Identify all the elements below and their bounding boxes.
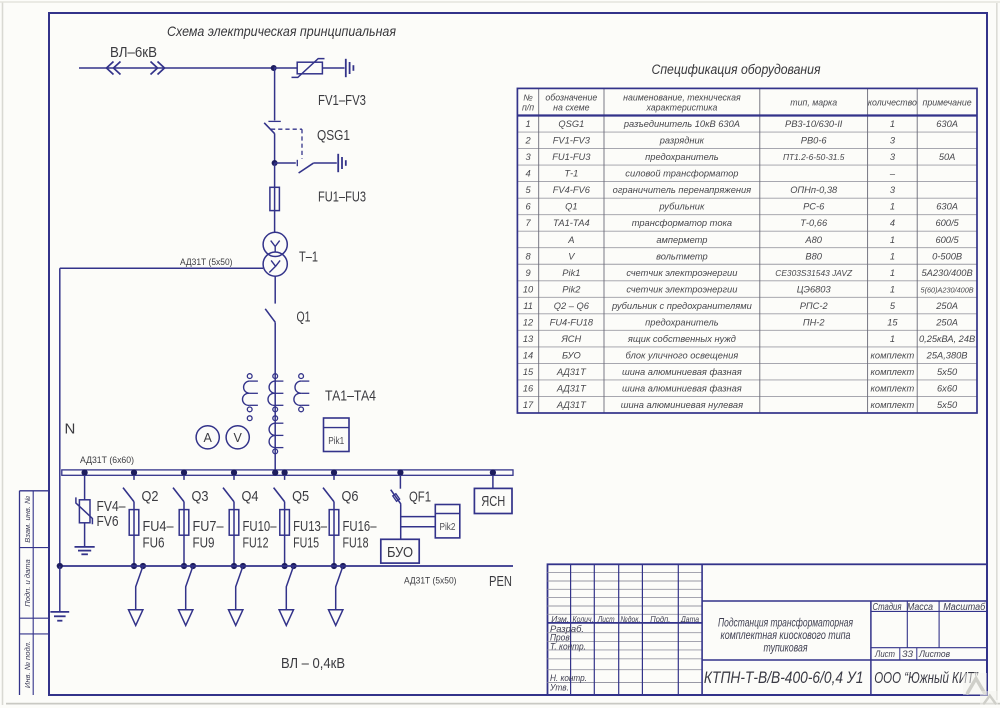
svg-text:ТА1-ТА4: ТА1-ТА4: [553, 218, 590, 228]
svg-text:Спецификация оборудования: Спецификация оборудования: [652, 62, 821, 77]
svg-text:1: 1: [890, 235, 895, 245]
svg-text:А: А: [204, 431, 213, 445]
ground for FV4-FV6: [75, 547, 95, 554]
svg-text:комплект: комплект: [871, 350, 915, 360]
svg-text:Т. контр.: Т. контр.: [550, 641, 586, 651]
svg-text:АД31Т: АД31Т: [556, 384, 587, 394]
auxiliary box YaSN: [474, 488, 512, 513]
svg-text:1: 1: [890, 119, 895, 129]
svg-text:В80: В80: [805, 251, 822, 261]
switch Q2: [123, 488, 134, 502]
svg-text:13: 13: [523, 334, 534, 344]
svg-text:Инв. № подл.: Инв. № подл.: [23, 641, 32, 688]
node: Q3 on PEN bus: [181, 563, 187, 569]
svg-text:FU1–FU3: FU1–FU3: [318, 189, 366, 206]
svg-text:FU12: FU12: [243, 535, 269, 552]
wire down to QSG1: [274, 68, 276, 120]
wire QF1 down: [400, 504, 402, 539]
svg-text:ООО “Южный КИТ”: ООО “Южный КИТ”: [874, 670, 978, 687]
spec table grid: [517, 88, 977, 413]
svg-text:QSG1: QSG1: [558, 119, 584, 129]
energy meter Pik2: [435, 505, 460, 538]
svg-text:Pik1: Pik1: [562, 268, 580, 278]
svg-text:Н. контр.: Н. контр.: [550, 673, 587, 683]
surge arrester FV1-FV3: [292, 59, 325, 78]
svg-text:FU7–: FU7–: [193, 518, 225, 535]
node: bus junction Q6: [331, 470, 337, 476]
svg-text:ЯСН: ЯСН: [481, 493, 505, 510]
svg-text:Схема электрическая принципиал: Схема электрическая принципиальная: [167, 24, 397, 39]
incoming line chevron arrows: [107, 62, 165, 75]
svg-text:количество: количество: [868, 98, 917, 108]
circuit breaker QF1: [391, 490, 401, 504]
title block project name: [718, 618, 853, 655]
svg-text:РС-6: РС-6: [803, 202, 825, 212]
svg-text:2: 2: [524, 136, 531, 146]
svg-text:FU18: FU18: [343, 535, 369, 552]
svg-text:Q6: Q6: [342, 488, 359, 505]
node: bus junction Q3: [181, 470, 187, 476]
energy meter Pik1: [324, 418, 350, 452]
svg-text:ТА1–ТА4: ТА1–ТА4: [325, 388, 376, 405]
wire stub bus to QF1: [399, 475, 401, 489]
svg-text:1: 1: [890, 334, 895, 344]
wire Q6 to fuse: [333, 502, 335, 566]
current transformer winding TA1: [242, 374, 257, 412]
svg-text:FU4–: FU4–: [143, 518, 175, 535]
svg-text:V: V: [234, 431, 243, 445]
svg-text:N: N: [65, 421, 75, 438]
svg-text:5х50: 5х50: [937, 400, 958, 410]
svg-text:предохранитель: предохранитель: [645, 152, 719, 162]
wire T-1 to Q1: [274, 276, 276, 303]
svg-text:ЯСН: ЯСН: [560, 334, 581, 344]
ground (right-facing) for FV1-FV3: [346, 59, 354, 77]
svg-text:ПН-2: ПН-2: [803, 317, 826, 327]
svg-text:Утв.: Утв.: [549, 683, 569, 693]
outgoing line arrow Q3: [179, 610, 193, 626]
watermark (decorative): [963, 673, 987, 695]
node: junction of line and arrester tap: [271, 65, 277, 71]
wire QF1 to Pik2 (lower): [401, 526, 436, 528]
wire 6kV overhead line: [79, 67, 274, 69]
svg-text:Q1: Q1: [297, 309, 311, 326]
svg-text:4: 4: [525, 169, 530, 179]
svg-text:FU6: FU6: [143, 535, 165, 552]
svg-text:FU10–: FU10–: [243, 518, 277, 535]
svg-text:FU13–: FU13–: [293, 518, 327, 535]
svg-text:Подп.: Подп.: [650, 614, 670, 624]
wire to earthing switch: [275, 162, 296, 164]
svg-text:600/5: 600/5: [935, 218, 959, 228]
svg-text:FV4-FV6: FV4-FV6: [553, 185, 591, 195]
wire bus to FV4-FV6: [84, 475, 86, 500]
svg-text:тип, марка: тип, марка: [790, 98, 837, 108]
svg-text:АД31Т: АД31Т: [556, 367, 587, 377]
svg-text:РПС-2: РПС-2: [800, 301, 829, 311]
fuse FU7–FU9: [179, 510, 189, 536]
main 0.4kV busbar: [62, 470, 513, 475]
svg-text:АД31Т (5х50): АД31Т (5х50): [180, 257, 233, 268]
svg-text:FU9: FU9: [193, 535, 215, 552]
svg-text:33: 33: [902, 649, 914, 660]
svg-text:тупиковая: тупиковая: [764, 643, 808, 655]
node: bus junction Q4: [231, 470, 237, 476]
svg-text:FU15: FU15: [293, 535, 319, 552]
fuse FU4–FU6: [129, 510, 139, 536]
svg-text:Q5: Q5: [292, 488, 309, 505]
svg-text:ящик собственных нужд: ящик собственных нужд: [627, 334, 736, 344]
node: QSG1 / earthing switch junction: [272, 160, 278, 166]
TA1 terminal circle: [247, 416, 252, 421]
svg-text:предохранитель: предохранитель: [645, 317, 719, 327]
svg-text:630А: 630А: [936, 119, 958, 129]
wire Q2 to fuse: [133, 502, 135, 566]
svg-text:КТПН-Т-В/В-400-6/0,4 У1: КТПН-Т-В/В-400-6/0,4 У1: [704, 668, 864, 687]
left strip label (rotated): [23, 641, 32, 688]
feeder Q3: wire stub from bus: [183, 475, 185, 480]
svg-text:Лист: Лист: [874, 649, 895, 660]
svg-text:QF1: QF1: [409, 489, 431, 506]
svg-text:рубильник с предохранителями: рубильник с предохранителями: [611, 301, 752, 311]
wire Q3 to fuse: [183, 502, 185, 566]
switch Q1: [265, 309, 275, 322]
svg-text:250А: 250А: [935, 317, 958, 327]
svg-text:FV1-FV3: FV1-FV3: [553, 136, 591, 146]
svg-text:Дата: Дата: [680, 614, 699, 624]
switch Q4: [223, 488, 234, 502]
svg-text:1: 1: [890, 268, 895, 278]
svg-text:ОПНп-0,38: ОПНп-0,38: [790, 185, 838, 195]
svg-text:14: 14: [523, 350, 533, 360]
switch Q3: [173, 488, 184, 502]
svg-text:СЕ303S31543 JAVZ: СЕ303S31543 JAVZ: [775, 268, 853, 278]
svg-text:примечание: примечание: [923, 98, 972, 108]
svg-text:характеристика: характеристика: [645, 103, 717, 113]
node: outgoing tap Q4: [240, 563, 246, 569]
svg-text:15: 15: [887, 317, 898, 327]
svg-text:Q4: Q4: [242, 488, 259, 505]
svg-text:3: 3: [890, 185, 896, 195]
svg-text:БУО: БУО: [562, 350, 581, 360]
svg-text:PEN: PEN: [489, 573, 512, 590]
svg-text:Pik2: Pik2: [440, 521, 456, 533]
svg-text:V: V: [568, 251, 575, 261]
svg-text:разрядник: разрядник: [659, 136, 705, 146]
node: bus junction Q2: [131, 470, 137, 476]
svg-text:5(60)А230/400В: 5(60)А230/400В: [921, 285, 974, 294]
wire QSG1 to node: [274, 134, 276, 163]
svg-text:блок уличного освещения: блок уличного освещения: [626, 350, 739, 360]
outgoing line arrow Q4: [229, 610, 243, 626]
spec table header: [522, 93, 972, 113]
svg-text:Q2 – Q6: Q2 – Q6: [554, 301, 590, 311]
svg-text:А80: А80: [804, 235, 822, 245]
svg-text:ВЛ–6кВ: ВЛ–6кВ: [110, 44, 157, 61]
svg-text:0-500В: 0-500В: [932, 251, 962, 261]
outgoing line arrow Q2: [129, 610, 143, 626]
wire outgoing line Q3: [186, 566, 193, 610]
svg-text:Изм.: Изм.: [551, 614, 569, 624]
svg-text:Взам. инв. №: Взам. инв. №: [23, 496, 32, 543]
node: outgoing tap Q3: [190, 563, 196, 569]
outgoing line arrow Q5: [279, 610, 293, 626]
svg-text:Колич.: Колич.: [573, 614, 594, 624]
wire to arrester FV1-FV3: [274, 67, 297, 69]
svg-text:Листов: Листов: [918, 649, 950, 660]
earthing switch contact of QSG1: [297, 160, 313, 173]
svg-text:счетчик электроэнергии: счетчик электроэнергии: [626, 268, 737, 278]
svg-text:Q3: Q3: [192, 488, 209, 505]
svg-text:5: 5: [890, 301, 896, 311]
feeder Q5: wire stub from bus: [284, 475, 286, 480]
wire FV4-FV6 to ground: [84, 523, 86, 547]
svg-text:комплект: комплект: [871, 400, 915, 410]
svg-text:Т-1: Т-1: [564, 169, 578, 179]
svg-text:АД31Т (5х50): АД31Т (5х50): [404, 575, 457, 586]
wire outgoing line Q6: [336, 566, 343, 610]
node: Q4 on PEN bus: [231, 563, 237, 569]
wire outgoing line Q2: [136, 566, 143, 610]
feeder Q4: wire stub from bus: [233, 475, 235, 480]
svg-text:ВЛ – 0,4кВ: ВЛ – 0,4кВ: [281, 655, 345, 672]
voltmeter V: [226, 426, 249, 449]
svg-text:3: 3: [890, 152, 896, 162]
svg-text:16: 16: [523, 384, 534, 394]
wire Q5 to fuse: [284, 502, 286, 566]
svg-text:15: 15: [523, 367, 534, 377]
svg-text:комплектная киоскового типа: комплектная киоскового типа: [721, 630, 851, 642]
wire Q4 to fuse: [233, 502, 235, 566]
svg-text:Q2: Q2: [142, 488, 159, 505]
disconnector QSG1: [264, 121, 281, 133]
svg-text:4: 4: [890, 218, 895, 228]
node: Q6 on PEN bus: [331, 563, 337, 569]
svg-text:–: –: [889, 169, 896, 179]
switch Q5: [274, 488, 285, 502]
svg-text:вольтметр: вольтметр: [656, 251, 708, 261]
svg-text:наименование, техническая: наименование, техническая: [623, 93, 741, 103]
svg-text:БУО: БУО: [387, 544, 413, 561]
svg-text:1: 1: [890, 284, 895, 294]
wire outgoing line Q4: [236, 566, 243, 610]
svg-text:12: 12: [523, 317, 534, 327]
title block stage/mass/scale: [873, 601, 986, 660]
fuse FU16–FU18: [329, 510, 339, 536]
svg-text:разъединитель 10кВ 630А: разъединитель 10кВ 630А: [623, 119, 740, 129]
svg-text:3: 3: [890, 136, 896, 146]
fuse FU13–FU15: [280, 510, 290, 536]
node: outgoing tap Q2: [140, 563, 146, 569]
svg-text:5: 5: [525, 185, 531, 195]
node: bus junction FV4 tap: [82, 470, 88, 476]
wire outgoing line Q5: [286, 566, 293, 610]
svg-text:ограничитель перенапряжения: ограничитель перенапряжения: [613, 185, 751, 195]
svg-text:счетчик электроэнергии: счетчик электроэнергии: [626, 284, 737, 294]
svg-text:5х50: 5х50: [937, 367, 958, 377]
title block small labels: [549, 614, 699, 693]
svg-text:1: 1: [890, 202, 895, 212]
svg-text:17: 17: [523, 400, 534, 410]
svg-text:8: 8: [525, 251, 531, 261]
svg-text:АД31Т: АД31Т: [556, 400, 587, 410]
outgoing line arrow Q6: [329, 610, 343, 626]
svg-text:п/п: п/п: [522, 103, 534, 113]
svg-text:FU16–: FU16–: [343, 518, 377, 535]
node: bus junction QF1: [397, 470, 403, 476]
left frame strip cells: [20, 491, 49, 695]
current transformer winding TA2: [268, 374, 283, 412]
svg-text:обозначение: обозначение: [545, 93, 597, 103]
title block: [548, 564, 988, 695]
node: Q2 on PEN bus: [131, 563, 137, 569]
feeder Q2: wire stub from bus: [133, 475, 135, 480]
svg-text:№: №: [523, 93, 533, 103]
svg-text:25А,380В: 25А,380В: [926, 350, 968, 360]
svg-text:комплект: комплект: [871, 384, 915, 394]
ground for PEN: [50, 612, 69, 621]
svg-text:11: 11: [523, 301, 533, 311]
svg-text:0,25кВА, 24В: 0,25кВА, 24В: [919, 334, 975, 344]
svg-text:Лист: Лист: [597, 614, 615, 624]
svg-text:РВ3-10/630-II: РВ3-10/630-II: [785, 119, 843, 129]
svg-text:Масштаб: Масштаб: [943, 601, 985, 613]
svg-text:амперметр: амперметр: [656, 235, 707, 245]
svg-text:FU4-FU18: FU4-FU18: [550, 317, 594, 327]
svg-text:Pik1: Pik1: [328, 435, 344, 447]
svg-text:10: 10: [523, 284, 534, 294]
svg-text:FV1–FV3: FV1–FV3: [318, 92, 366, 109]
surge arrester FV4-FV6: [76, 497, 93, 524]
wire arrester to ground: [322, 67, 344, 69]
svg-text:силовой трансформатор: силовой трансформатор: [625, 169, 738, 179]
left strip label (rotated): [23, 559, 32, 607]
svg-text:Подп. и дата: Подп. и дата: [23, 559, 32, 607]
svg-text:трансформатор тока: трансформатор тока: [632, 218, 732, 228]
svg-text:Q1: Q1: [565, 202, 577, 212]
switch Q6: [323, 488, 334, 502]
power transformer T-1: [263, 232, 287, 276]
TA4 terminal circle: [273, 416, 278, 421]
wire QF1 to Pik2 (upper): [401, 516, 436, 518]
street lighting unit BUO: [381, 539, 419, 563]
svg-text:ЦЭ6803: ЦЭ6803: [797, 284, 832, 294]
current transformer winding TA3: [294, 374, 309, 412]
svg-text:250А: 250А: [935, 301, 958, 311]
svg-text:FU1-FU3: FU1-FU3: [552, 152, 591, 162]
node: outgoing tap Q6: [340, 563, 346, 569]
svg-text:Т–1: Т–1: [299, 249, 318, 266]
svg-text:FV6: FV6: [97, 513, 119, 530]
node: N to PEN junction: [57, 563, 63, 569]
svg-text:5А230/400В: 5А230/400В: [922, 268, 973, 278]
fuse FU10–FU12: [229, 510, 239, 536]
node: bus junction YaSN: [490, 470, 496, 476]
wire earthing switch to ground: [313, 162, 337, 164]
ammeter A: [196, 426, 219, 449]
svg-text:50А: 50А: [939, 152, 956, 162]
current transformer winding TA4: [269, 423, 283, 454]
svg-text:1: 1: [525, 119, 530, 129]
svg-text:3: 3: [525, 152, 531, 162]
svg-text:шина алюминиевая фазная: шина алюминиевая фазная: [622, 384, 742, 394]
node: bus junction Q5: [282, 470, 288, 476]
QSG1 linkage (dashed): [271, 129, 302, 158]
svg-text:6: 6: [525, 202, 531, 212]
ground (right-facing) for QSG1: [338, 154, 346, 172]
svg-text:1: 1: [890, 251, 895, 261]
node: bus junction main: [272, 470, 278, 476]
wire stub bus to YaSN: [492, 475, 494, 488]
wire N from transformer neutral: [60, 267, 263, 269]
svg-text:QSG1: QSG1: [317, 127, 350, 144]
svg-text:9: 9: [525, 268, 530, 278]
svg-text:АД31Т (6х60): АД31Т (6х60): [80, 455, 134, 466]
svg-text:РВ0-6: РВ0-6: [801, 136, 828, 146]
wire PEN to ground: [59, 566, 61, 612]
left strip label (rotated): [23, 496, 32, 543]
svg-text:6х60: 6х60: [937, 384, 958, 394]
svg-text:рубильник: рубильник: [658, 202, 705, 212]
wire node to fuse FU1-FU3: [274, 163, 276, 232]
spec table rows: [523, 119, 975, 410]
svg-text:на схеме: на схеме: [553, 103, 590, 113]
svg-text:№док.: №док.: [620, 614, 640, 624]
svg-text:Т-0,66: Т-0,66: [800, 218, 828, 228]
svg-text:шина алюминиевая нулевая: шина алюминиевая нулевая: [621, 400, 743, 410]
svg-text:А: А: [567, 235, 574, 245]
node: Q5 on PEN bus: [282, 563, 288, 569]
wire Q1 to TA1-TA4: [274, 322, 276, 470]
node: outgoing tap Q5: [291, 563, 297, 569]
svg-text:ПТ1.2-6-50-31.5: ПТ1.2-6-50-31.5: [783, 152, 845, 162]
svg-text:шина алюминиевая фазная: шина алюминиевая фазная: [622, 367, 742, 377]
fuse FU1-FU3: [270, 187, 280, 210]
svg-text:Масса: Масса: [907, 602, 933, 613]
svg-text:Стадия: Стадия: [873, 602, 903, 613]
svg-text:7: 7: [525, 218, 531, 228]
svg-text:Подстанция трансформаторная: Подстанция трансформаторная: [718, 618, 853, 630]
svg-text:600/5: 600/5: [935, 235, 959, 245]
feeder Q6: wire stub from bus: [333, 475, 335, 480]
svg-text:Pik2: Pik2: [562, 284, 581, 294]
wire N vertical run: [59, 268, 61, 566]
PEN busbar: [60, 565, 513, 567]
svg-text:630А: 630А: [936, 202, 958, 212]
svg-text:комплект: комплект: [871, 367, 915, 377]
